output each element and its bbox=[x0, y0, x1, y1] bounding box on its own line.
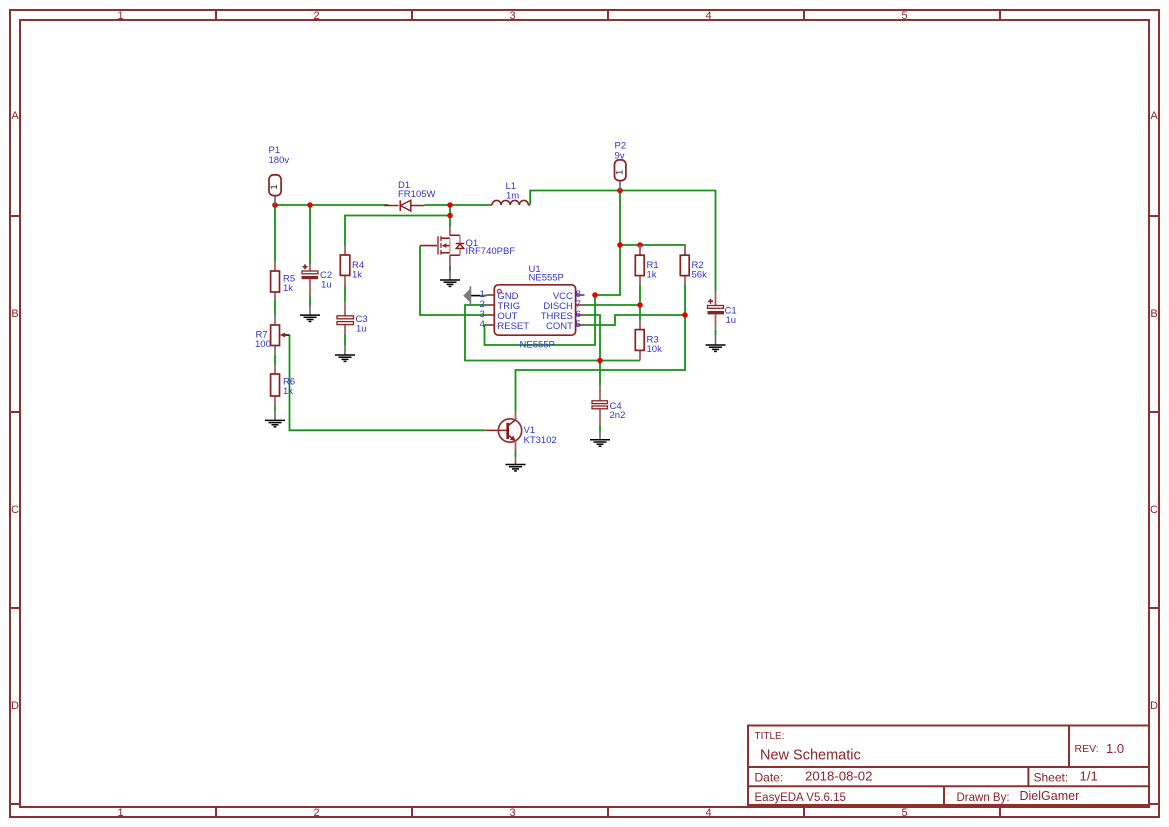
wire R4 to C3 bbox=[344, 285, 346, 301]
wire P1 top rail bbox=[275, 204, 389, 206]
svg-text:Sheet:: Sheet: bbox=[1034, 771, 1069, 785]
svg-text:4: 4 bbox=[705, 807, 711, 819]
diode D1 FR105W bbox=[384, 180, 436, 211]
svg-text:NE555P: NE555P bbox=[520, 340, 555, 351]
potentiometer R7 bbox=[255, 316, 290, 355]
svg-text:A: A bbox=[1150, 110, 1158, 122]
wire L1 right to P2 rail bbox=[530, 191, 715, 292]
svg-text:1: 1 bbox=[117, 10, 123, 22]
svg-text:DielGamer: DielGamer bbox=[1020, 789, 1080, 803]
ground under C2 bbox=[300, 306, 320, 322]
junction node R1 top bbox=[637, 242, 643, 248]
svg-text:5: 5 bbox=[576, 319, 581, 330]
svg-text:Date:: Date: bbox=[755, 771, 784, 785]
ground under C4 bbox=[590, 431, 610, 446]
ground under R6 bbox=[265, 411, 285, 427]
resistor R6 bbox=[271, 365, 296, 406]
wire TRIG net bbox=[465, 305, 640, 361]
svg-text:C: C bbox=[1150, 504, 1158, 516]
wire CONT to R2 bbox=[585, 315, 686, 325]
svg-text:New Schematic: New Schematic bbox=[760, 748, 861, 764]
svg-text:KT3102: KT3102 bbox=[524, 435, 557, 446]
wire DISCH to R1 R3 bbox=[585, 304, 641, 306]
svg-text:2n2: 2n2 bbox=[610, 410, 626, 421]
wire R5 R7 link bbox=[274, 300, 276, 316]
svg-text:Drawn By:: Drawn By: bbox=[957, 792, 1010, 804]
svg-text:5: 5 bbox=[901, 10, 907, 22]
wire C2 to ground bbox=[309, 295, 311, 306]
junction node CONT R2 bbox=[682, 312, 688, 318]
wire THRES down bbox=[585, 315, 601, 386]
wire second rail to R4 bbox=[345, 216, 450, 246]
svg-text:1: 1 bbox=[614, 170, 625, 175]
svg-text:1k: 1k bbox=[283, 283, 293, 294]
junction node TRIG C4 bbox=[597, 358, 603, 364]
ground flag at pin 1 bbox=[463, 286, 480, 304]
resistor R5 bbox=[271, 261, 296, 300]
capacitor C4 bbox=[592, 386, 625, 426]
resistor R2 bbox=[680, 245, 707, 285]
wire R7 wiper to V1 base bbox=[290, 335, 486, 430]
connector P1 bbox=[269, 145, 290, 205]
svg-text:2: 2 bbox=[313, 10, 319, 22]
svg-text:1k: 1k bbox=[647, 270, 657, 281]
wire R7 R6 link bbox=[274, 355, 276, 366]
ground under Q1 bbox=[440, 266, 460, 287]
title block bbox=[748, 726, 1149, 806]
svg-text:CONT: CONT bbox=[546, 321, 573, 332]
svg-text:IRF740PBF: IRF740PBF bbox=[466, 246, 516, 257]
transistor V1 KT3102 bbox=[485, 411, 556, 451]
connector P2 bbox=[614, 141, 626, 191]
svg-text:C: C bbox=[11, 504, 19, 516]
IC U1 NE555P bbox=[480, 264, 585, 350]
svg-text:1k: 1k bbox=[352, 270, 362, 281]
svg-text:9v: 9v bbox=[615, 151, 625, 162]
transistor Q1 IRF740PBF bbox=[420, 227, 516, 266]
ground under C1 bbox=[706, 336, 726, 352]
wire Q1 gate to OUT bbox=[420, 246, 487, 315]
resistor R1 bbox=[635, 245, 658, 285]
svg-text:180v: 180v bbox=[269, 155, 290, 166]
svg-text:4: 4 bbox=[705, 10, 711, 22]
svg-text:1u: 1u bbox=[321, 280, 332, 291]
svg-text:3: 3 bbox=[509, 10, 515, 22]
junction node C2 top bbox=[307, 202, 313, 208]
svg-text:10k: 10k bbox=[647, 344, 663, 355]
capacitor C1 polarized bbox=[708, 291, 737, 330]
svg-text:5: 5 bbox=[901, 807, 907, 819]
svg-text:100: 100 bbox=[255, 339, 271, 350]
svg-text:2018-08-02: 2018-08-02 bbox=[805, 769, 872, 784]
svg-text:B: B bbox=[1150, 308, 1157, 320]
wire C1 to ground bbox=[715, 330, 717, 336]
capacitor C2 polarized bbox=[302, 264, 333, 295]
svg-text:1: 1 bbox=[117, 807, 123, 819]
wire VCC branch R1 R2 bbox=[620, 245, 685, 255]
wire R6 to ground bbox=[274, 406, 276, 411]
svg-text:1u: 1u bbox=[356, 323, 367, 334]
wire R1 bottom bbox=[639, 285, 641, 321]
svg-text:FR105W: FR105W bbox=[398, 189, 436, 200]
capacitor C3 bbox=[337, 301, 368, 335]
wire C3 to ground bbox=[344, 335, 346, 346]
junction node VCC pin bbox=[592, 292, 598, 298]
svg-text:4: 4 bbox=[480, 319, 485, 330]
svg-text:TITLE:: TITLE: bbox=[755, 731, 785, 742]
junction node D1 out bbox=[447, 202, 453, 208]
resistor R4 bbox=[340, 246, 364, 286]
svg-text:1/1: 1/1 bbox=[1080, 769, 1098, 784]
svg-text:1.0: 1.0 bbox=[1106, 741, 1124, 756]
svg-text:NE555P: NE555P bbox=[529, 273, 564, 284]
ground under V1 bbox=[506, 457, 526, 471]
svg-text:1k: 1k bbox=[283, 386, 293, 397]
svg-text:RESET: RESET bbox=[497, 321, 529, 332]
resistor R3 bbox=[635, 321, 662, 361]
wire C4 bottom bbox=[599, 426, 601, 432]
inductor L1 bbox=[489, 181, 531, 205]
wire Q1 source to ground bbox=[449, 266, 451, 272]
junction node DISCH bbox=[637, 302, 643, 308]
svg-text:D: D bbox=[11, 700, 19, 712]
svg-text:2: 2 bbox=[313, 807, 319, 819]
junction node VCC rail bbox=[617, 242, 623, 248]
wire V1 emitter to ground bbox=[515, 451, 517, 457]
svg-text:D: D bbox=[1150, 700, 1158, 712]
svg-text:1m: 1m bbox=[506, 191, 519, 202]
junction node P1 bbox=[272, 202, 278, 208]
svg-text:B: B bbox=[11, 308, 18, 320]
svg-text:REV:: REV: bbox=[1075, 743, 1099, 755]
wire R2 net bbox=[516, 285, 686, 412]
wire node to R5 bbox=[274, 205, 276, 261]
svg-text:56k: 56k bbox=[692, 270, 708, 281]
svg-text:EasyEDA V5.6.15: EasyEDA V5.6.15 bbox=[755, 792, 846, 804]
junction node second rail bbox=[447, 213, 453, 219]
junction node P2 bbox=[617, 188, 623, 194]
svg-text:1u: 1u bbox=[726, 315, 737, 326]
wire P2 to VCC bbox=[595, 191, 620, 296]
wire D1 to node bbox=[425, 204, 489, 206]
wire node to Q1 drain bbox=[449, 205, 451, 227]
svg-text:1: 1 bbox=[269, 184, 280, 189]
wire node to C2 bbox=[309, 205, 311, 264]
wire RESET to VCC bbox=[485, 295, 596, 345]
ground under C3 bbox=[335, 346, 355, 362]
wire GND flag to pin1 bbox=[480, 295, 487, 297]
svg-text:A: A bbox=[11, 110, 19, 122]
svg-text:3: 3 bbox=[509, 807, 515, 819]
